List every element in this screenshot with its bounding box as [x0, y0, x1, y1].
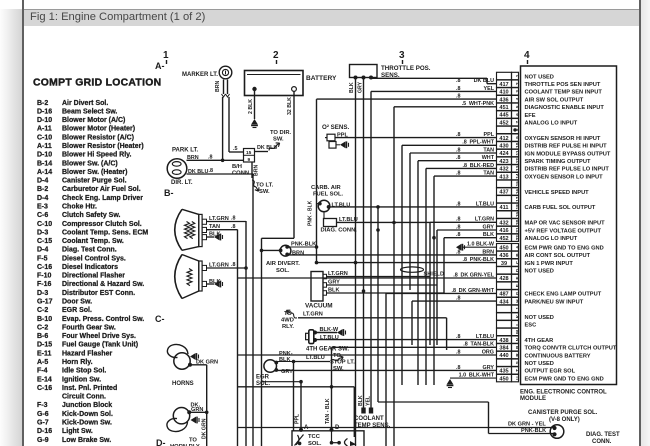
svg-text:.8: .8 [456, 217, 461, 223]
svg-text:.8 PNK-BLK: .8 PNK-BLK [463, 257, 495, 263]
label MARKER LT. [182, 72, 218, 78]
svg-text:BLK: BLK [279, 357, 291, 363]
wire DK GRN-WHT to pin G [386, 293, 497, 446]
svg-text:1.0 BLK-WHT: 1.0 BLK-WHT [459, 373, 495, 379]
label TCC SOL. [308, 434, 322, 446]
window top white strip [0, 0, 650, 9]
label ENG ELECTRONIC CONTROL MODULE [520, 390, 607, 402]
svg-text:8: 8 [515, 128, 520, 131]
svg-text:ECM PWR GND TO ENG GND: ECM PWR GND TO ENG GND [525, 376, 604, 382]
svg-text:.8: .8 [231, 215, 236, 221]
wire PNK-BLK to ECM pin C [317, 262, 497, 264]
svg-text:Check Eng. Lamp Driver: Check Eng. Lamp Driver [62, 195, 143, 202]
wire BLK 2 to ground [207, 283, 215, 285]
svg-text:EGR: EGR [256, 375, 270, 381]
label BLK coolant [358, 395, 364, 406]
svg-text:D-4: D-4 [37, 195, 48, 202]
svg-text:9: 9 [248, 157, 251, 163]
svg-text:VACUUM: VACUUM [305, 303, 333, 310]
svg-text:.8 DK GRN-YEL: .8 DK GRN-YEL [453, 272, 494, 278]
svg-text:D-16: D-16 [37, 428, 52, 435]
grid column marker 2 [273, 50, 279, 61]
svg-text:G-9: G-9 [37, 437, 49, 444]
svg-text:6: 6 [515, 113, 520, 116]
svg-text:.8: .8 [208, 155, 213, 161]
svg-text:Directional Flasher: Directional Flasher [62, 273, 125, 280]
label TAN-BLK tcc [325, 398, 331, 424]
svg-text:5: 5 [515, 105, 520, 108]
svg-text:WHT: WHT [482, 155, 495, 161]
svg-text:A-5: A-5 [37, 359, 48, 366]
svg-text:Distributor EST Conn.: Distributor EST Conn. [62, 290, 135, 297]
svg-text:450: 450 [499, 245, 508, 251]
pin 15 label [246, 150, 252, 156]
svg-text:BATTERY: BATTERY [306, 75, 337, 82]
TCC coil [332, 431, 340, 443]
label LT.GRN 4wd [303, 312, 323, 318]
EGR terminals [274, 361, 278, 372]
svg-text:428: 428 [499, 276, 508, 282]
wire PPL o2 to ECM pin 9 [335, 137, 497, 139]
svg-text:NOT USED: NOT USED [525, 269, 554, 275]
label SHIELD [424, 272, 445, 278]
svg-text:OUTPUT EGR SOL: OUTPUT EGR SOL [525, 369, 576, 375]
wire battery negative to ground [254, 91, 256, 119]
legend grid reference list [37, 100, 148, 444]
label PNK-BLK air divert [291, 241, 316, 247]
svg-text:E-3: E-3 [37, 204, 48, 211]
svg-text:451: 451 [499, 105, 508, 111]
wire lo beam LT.GRN to bus junction [207, 267, 247, 269]
svg-text:ESC: ESC [525, 323, 537, 329]
svg-text:.8: .8 [456, 232, 461, 238]
svg-text:ANALOG LO INPUT: ANALOG LO INPUT [525, 121, 578, 127]
svg-text:DIAGNOSTIC ENABLE INPUT: DIAGNOSTIC ENABLE INPUT [525, 105, 605, 111]
junction PPL [299, 380, 303, 384]
label DK GRN vertical [202, 418, 208, 439]
tick under 3 [402, 60, 404, 64]
label PARK LT. [172, 148, 198, 154]
svg-text:COMPT GRID LOCATION: COMPT GRID LOCATION [33, 78, 161, 89]
svg-text:2: 2 [273, 50, 279, 61]
svg-text:TO DIR.: TO DIR. [270, 130, 292, 136]
svg-text:A-11: A-11 [37, 126, 52, 133]
svg-text:.5 WHT-PNK: .5 WHT-PNK [462, 101, 494, 107]
svg-text:424: 424 [499, 151, 509, 157]
svg-text:Coolant Temp. Sw.: Coolant Temp. Sw. [62, 238, 124, 245]
wire stop-lt junction down to TCC [293, 362, 295, 431]
svg-text:ORG: ORG [482, 349, 494, 355]
ECM connector pin rows [497, 72, 519, 382]
label BLK-W 4th gear [320, 327, 339, 333]
grid column marker 1 [163, 50, 169, 61]
air divert terminals [279, 245, 289, 256]
svg-text:G-7: G-7 [37, 420, 49, 427]
diagnostic connector [324, 219, 337, 227]
svg-text:BLK: BLK [483, 232, 494, 238]
svg-text:NOT USED: NOT USED [525, 74, 554, 80]
squiggle to stop lt sw [330, 355, 344, 364]
wire dir DK BLU to corner [187, 173, 254, 175]
wire tps GRY down to coolant sensor [363, 78, 365, 408]
svg-text:13: 13 [515, 165, 520, 171]
svg-text:SOL.: SOL. [308, 441, 322, 446]
svg-text:Evap. Press. Control Sw.: Evap. Press. Control Sw. [62, 316, 144, 323]
svg-text:SPARK TIMING OUTPUT: SPARK TIMING OUTPUT [525, 159, 591, 165]
svg-text:D-4: D-4 [37, 178, 48, 185]
squiggle to dir switch [268, 141, 281, 152]
horn 2 [167, 408, 190, 432]
svg-text:SW.: SW. [333, 366, 344, 372]
svg-text:10: 10 [515, 142, 520, 148]
svg-text:VEHICLE SPEED INPUT: VEHICLE SPEED INPUT [525, 190, 590, 196]
wire bus LT GRN down [245, 221, 247, 446]
connector B/H CONN [244, 149, 255, 163]
svg-text:L: L [515, 323, 520, 326]
svg-text:18: 18 [515, 204, 520, 210]
label BLK vacuum [328, 288, 340, 294]
svg-text:D-3: D-3 [37, 229, 48, 236]
svg-text:YEL: YEL [484, 86, 495, 92]
window right margin strip [641, 0, 650, 446]
wire BLK-RED to pin 13 [426, 168, 497, 385]
svg-text:452: 452 [499, 236, 508, 242]
wire B/H to dir switch [255, 151, 269, 153]
svg-text:HORNS: HORNS [172, 381, 194, 387]
svg-text:.8 PPL-WHT: .8 PPL-WHT [462, 140, 494, 146]
ECM pin numbers [499, 74, 519, 382]
svg-text:SW.: SW. [259, 189, 270, 195]
svg-text:417: 417 [499, 82, 508, 88]
svg-text:Blower Sw. (A/C): Blower Sw. (A/C) [62, 160, 118, 167]
svg-text:Clutch Safety Sw.: Clutch Safety Sw. [62, 212, 121, 219]
svg-text:14: 14 [515, 173, 520, 179]
svg-text:G-6: G-6 [37, 411, 49, 418]
wire vacuum BLK to ECM pin 22 [327, 238, 497, 293]
junction canister vertical and GRY row [376, 228, 380, 232]
svg-text:BRN: BRN [215, 81, 221, 92]
label LT.BLU stop light [306, 355, 325, 361]
svg-text:Blower Motor (A/C): Blower Motor (A/C) [62, 117, 125, 124]
wire vacuum LT GRN to ECM pin 20 [327, 222, 497, 345]
svg-text:Fuel Gauge (Tank Unit): Fuel Gauge (Tank Unit) [62, 342, 138, 349]
label DK BLU dir wire [188, 169, 208, 175]
pin 8 plug dot [513, 128, 516, 131]
terminal A [299, 428, 303, 432]
svg-text:Diesel Indicators: Diesel Indicators [62, 264, 118, 271]
svg-text:SW.: SW. [273, 137, 284, 143]
svg-text:15: 15 [515, 181, 520, 187]
svg-text:3: 3 [399, 50, 405, 61]
ground horn 2 [191, 417, 200, 424]
svg-text:Carburetor Air Fuel Sol.: Carburetor Air Fuel Sol. [62, 186, 141, 193]
svg-text:416: 416 [499, 228, 508, 234]
ground battery negative [251, 119, 258, 128]
svg-text:Four Wheel Drive Sys.: Four Wheel Drive Sys. [62, 333, 136, 340]
ground headlight 1 [214, 234, 223, 241]
svg-text:C-10: C-10 [37, 221, 52, 228]
grid column marker 3 [399, 50, 405, 61]
grid row marker C [155, 314, 165, 324]
svg-text:B-2: B-2 [37, 186, 48, 193]
label BRN to lt sw [254, 165, 260, 176]
legend heading COMPT GRID LOCATION [33, 78, 161, 89]
junction egr/4th gear [292, 360, 296, 364]
svg-text:Blower Hi Speed Rly.: Blower Hi Speed Rly. [62, 152, 132, 159]
wire DK GRN-YEL to pin E [238, 277, 497, 279]
ECM incoming wire labels [451, 78, 494, 378]
svg-text:B-6: B-6 [37, 333, 48, 340]
svg-text:413: 413 [499, 174, 508, 180]
label GRY tps [358, 81, 364, 93]
svg-text:ECM PWR GND TO ENG GND: ECM PWR GND TO ENG GND [525, 246, 604, 252]
svg-text:445: 445 [499, 113, 508, 119]
svg-text:B/H: B/H [232, 164, 242, 170]
svg-text:SHIELD: SHIELD [424, 272, 445, 278]
svg-text:J: J [515, 307, 520, 310]
label BATTERY [306, 75, 337, 82]
label DK GRN horn 1 [196, 360, 218, 366]
svg-text:452: 452 [499, 120, 508, 126]
label BLK headlight 2 [209, 279, 221, 285]
fourth gear terminals [313, 331, 317, 343]
ECM connector label box [521, 66, 617, 385]
svg-text:Horn Rly.: Horn Rly. [62, 359, 93, 366]
svg-text:COOLANT TEMP SEN INPUT: COOLANT TEMP SEN INPUT [525, 90, 603, 96]
svg-text:Circuit Conn.: Circuit Conn. [62, 394, 106, 401]
vacuum sensor [311, 272, 327, 302]
svg-text:P: P [515, 346, 520, 349]
svg-text:436: 436 [499, 253, 508, 259]
label TO LT. SW. [256, 183, 274, 196]
ground ECM pin U row [447, 378, 497, 387]
svg-text:7: 7 [515, 120, 520, 123]
svg-text:CARB FUEL SOL OUTPUT: CARB FUEL SOL OUTPUT [525, 205, 596, 211]
grid column marker 4 [524, 50, 530, 61]
svg-text:Ignition Sw.: Ignition Sw. [62, 376, 101, 383]
svg-text:T: T [515, 369, 520, 372]
svg-text:E: E [515, 276, 520, 279]
svg-text:DIR. LT.: DIR. LT. [171, 180, 193, 186]
label .8 tan [231, 224, 236, 230]
svg-text:TAN: TAN [483, 171, 494, 177]
label .8 lo beam [231, 262, 236, 268]
svg-text:411: 411 [499, 205, 508, 211]
svg-text:F-16: F-16 [37, 281, 52, 288]
junction lo beam bus [244, 266, 248, 270]
label 4TH GEAR SW. [306, 346, 349, 352]
headlight lo beam [175, 255, 207, 299]
label LT.BLU carb [332, 202, 351, 208]
window right border line [639, 0, 641, 446]
coolant temp sensor terminals [361, 408, 373, 414]
tick under 2 [276, 60, 278, 64]
svg-text:9: 9 [515, 136, 520, 139]
label 32 BLK [287, 97, 293, 115]
junction air divert bus [260, 249, 264, 253]
junction canister feed [376, 205, 380, 209]
svg-text:MAP OR VAC SENSOR INPUT: MAP OR VAC SENSOR INPUT [525, 221, 606, 227]
label BLK headlight ground [209, 232, 221, 238]
svg-text:NOT USED: NOT USED [525, 361, 554, 367]
wire TAN to pin 11 [410, 153, 497, 290]
svg-text:OXYGEN SENSOR HI INPUT: OXYGEN SENSOR HI INPUT [525, 136, 601, 142]
wire BLK to ground [207, 236, 215, 238]
svg-text:PARK/NEU SW INPUT: PARK/NEU SW INPUT [525, 299, 584, 305]
svg-text:Blower Sw. (Heater): Blower Sw. (Heater) [62, 169, 127, 176]
grid row marker D [156, 438, 166, 446]
junction horn link [205, 411, 209, 415]
label O2 SENS. [322, 124, 349, 131]
wire DK GRN-YEL canister [238, 427, 553, 429]
svg-text:Air Divert Sol.: Air Divert Sol. [62, 100, 108, 107]
grid row marker A [155, 61, 165, 71]
wire EGR branch to PPL [262, 381, 302, 383]
svg-text:D-: D- [156, 438, 166, 446]
wire carb sol PNK-BLK down [317, 99, 320, 263]
svg-text:.8: .8 [456, 132, 461, 138]
svg-text:GRY: GRY [483, 224, 495, 230]
wire PPL to TCC A [300, 382, 302, 431]
svg-text:PPL: PPL [484, 132, 495, 138]
wire YEL coolant to ECM pin 3 [371, 91, 497, 408]
svg-text:MARKER LT.: MARKER LT. [182, 72, 218, 78]
svg-text:C-10: C-10 [37, 134, 52, 141]
svg-text:4: 4 [515, 97, 520, 100]
junction TAN vertical and BLK row [432, 236, 436, 240]
svg-text:TCC: TCC [308, 434, 321, 440]
svg-text:21: 21 [515, 227, 520, 233]
label LT.BLU diag [339, 217, 358, 223]
svg-text:ANALOG LO INPUT: ANALOG LO INPUT [525, 236, 578, 242]
label .8 dir wire [209, 168, 214, 174]
wire 4th gear ground [315, 329, 346, 336]
air divert solenoid [280, 245, 291, 256]
svg-text:DK BLU: DK BLU [474, 78, 494, 84]
svg-text:Diesel Control Sys.: Diesel Control Sys. [62, 255, 126, 262]
label LT.GRN lo-only beam [209, 262, 229, 268]
svg-text:RLY.: RLY. [282, 324, 294, 330]
svg-text:.8: .8 [456, 201, 461, 207]
svg-text:Choke Htr.: Choke Htr. [62, 204, 97, 211]
svg-text:AIR SW SOL OUTPUT: AIR SW SOL OUTPUT [525, 97, 584, 103]
canister purge solenoid [550, 425, 564, 439]
svg-text:19: 19 [515, 212, 520, 218]
svg-text:(V-8 ONLY): (V-8 ONLY) [549, 417, 580, 423]
svg-text:432: 432 [499, 221, 508, 227]
tps terminals [354, 76, 374, 80]
svg-text:.8: .8 [231, 224, 236, 230]
marker light lamp [219, 66, 232, 79]
wire TAN-BLK to ECM pin P [332, 346, 497, 348]
wire marker light down pair [224, 80, 228, 95]
wire TAN-BLK to TCC D [331, 347, 333, 431]
label DK GRN-YEL canister [508, 422, 546, 428]
svg-text:39: 39 [501, 261, 507, 267]
svg-text:.5: .5 [233, 146, 238, 152]
label GRY egr [281, 369, 293, 375]
wire marker light to park junction [223, 97, 244, 160]
svg-text:Door Sw.: Door Sw. [62, 299, 92, 306]
svg-text:C-16: C-16 [37, 385, 52, 392]
label EGR SOL. [256, 375, 270, 388]
svg-text:LT.BLU: LT.BLU [476, 201, 494, 207]
wire EGR pnk-blk link [276, 361, 293, 363]
svg-text:OXYGEN SENSOR LO INPUT: OXYGEN SENSOR LO INPUT [525, 174, 604, 180]
label LT.GRN vacuum [328, 271, 348, 277]
wire horn vertical link [206, 365, 208, 446]
svg-text:440: 440 [499, 353, 508, 359]
svg-text:BLK: BLK [349, 82, 355, 93]
label A [304, 425, 309, 431]
carb sol terminal [318, 202, 331, 209]
svg-text:F-5: F-5 [37, 255, 48, 262]
svg-text:CONN.: CONN. [592, 439, 612, 445]
svg-text:EFE: EFE [525, 113, 536, 119]
wire bus DK BLU down [252, 174, 254, 446]
svg-text:CONN.: CONN. [232, 171, 251, 177]
svg-text:LT.BLU: LT.BLU [476, 334, 494, 340]
svg-text:C-2: C-2 [37, 307, 48, 314]
svg-text:LT.BLU: LT.BLU [306, 355, 325, 361]
svg-text:PPL: PPL [295, 413, 301, 424]
terminal D [330, 428, 334, 432]
svg-text:.8: .8 [456, 147, 461, 153]
fourth gear switch [306, 330, 314, 344]
label AIR DIVERT. SOL. [266, 261, 300, 274]
wire B/H down to light switch [251, 162, 253, 178]
svg-text:B-: B- [164, 188, 174, 198]
label DK GRN horn 2 [191, 402, 204, 413]
svg-text:432: 432 [499, 167, 508, 173]
battery [245, 71, 304, 96]
svg-text:DK GRN: DK GRN [196, 360, 218, 366]
svg-text:4WD: 4WD [281, 318, 294, 324]
svg-text:Inst. Pnl. Printed: Inst. Pnl. Printed [62, 385, 117, 392]
svg-text:C-: C- [155, 314, 165, 324]
svg-text:D-10: D-10 [37, 117, 52, 124]
svg-text:CHECK ENG LAMP OUTPUT: CHECK ENG LAMP OUTPUT [525, 292, 602, 298]
svg-text:F: F [515, 284, 520, 287]
svg-text:TORQ CONVTR CLUTCH OUTPUT: TORQ CONVTR CLUTCH OUTPUT [525, 346, 617, 352]
svg-text:Blower Resistor (A/C): Blower Resistor (A/C) [62, 134, 134, 141]
svg-text:IGN MODULE BYPASS OUTPUT: IGN MODULE BYPASS OUTPUT [525, 151, 611, 157]
svg-text:.8 TAN-BLK: .8 TAN-BLK [463, 342, 494, 348]
battery positive terminal [292, 87, 297, 92]
label 2 BLK [248, 99, 254, 114]
wire AIR SW SOL pnk-blk to pin 4 [317, 98, 497, 100]
TCC coil [330, 439, 357, 446]
label PNK-BLK egr [279, 351, 293, 363]
wire 4wd LT GRN [298, 318, 447, 350]
svg-text:A-: A- [155, 61, 165, 71]
svg-text:MODULE: MODULE [520, 396, 546, 402]
svg-text:Coolant Temp. Sens. ECM: Coolant Temp. Sens. ECM [62, 229, 148, 236]
svg-text:Light Sw.: Light Sw. [62, 428, 93, 435]
label CANISTER PURGE SOL. [528, 410, 598, 423]
svg-text:NOT USED: NOT USED [525, 315, 554, 321]
wire hi beam LT.GRN to corner [207, 221, 247, 223]
svg-text:PNK-BLK: PNK-BLK [291, 241, 316, 247]
wire tps DK BLU to ECM pin 2 [371, 78, 497, 83]
svg-text:F-10: F-10 [37, 273, 52, 280]
svg-text:2: 2 [515, 82, 520, 85]
tick under 1 [166, 60, 168, 64]
svg-text:S: S [515, 361, 520, 364]
label DIAG. TEST CONN. [586, 432, 620, 445]
label 1.0 BLK-W row A [467, 241, 495, 247]
svg-text:GRY: GRY [483, 365, 495, 371]
